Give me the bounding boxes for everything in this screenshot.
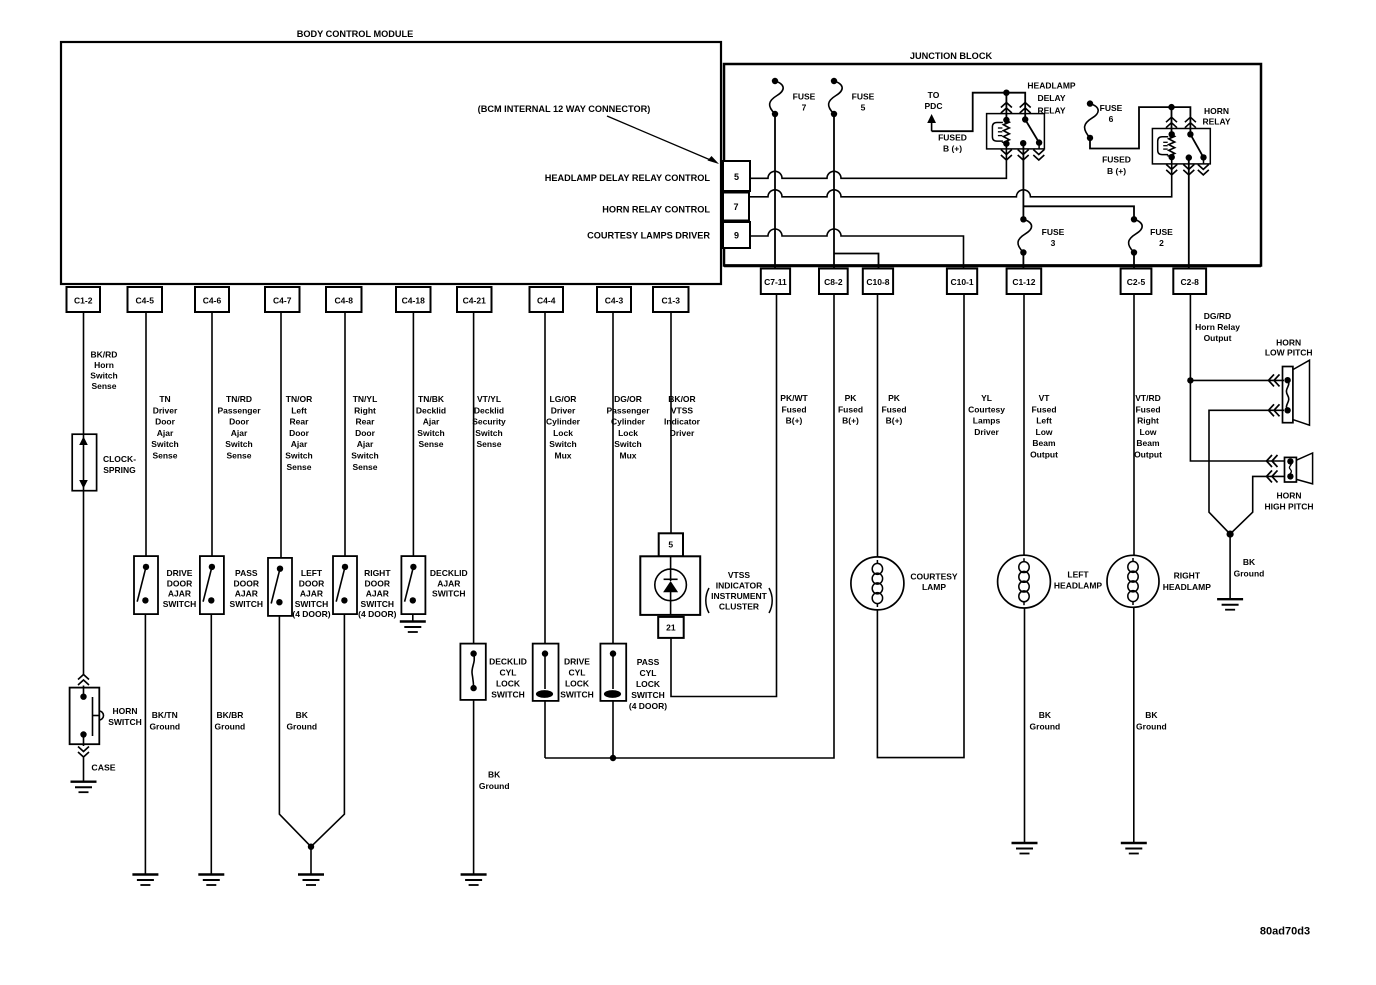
wire left headlamp to ground: [1024, 608, 1026, 843]
svg-text:6: 6: [1109, 114, 1114, 124]
svg-text:DECKLID: DECKLID: [489, 657, 527, 667]
connector chevron horn low pitch feed: [1269, 374, 1275, 386]
svg-text:HIGH PITCH: HIGH PITCH: [1264, 502, 1313, 512]
connector C4-7: [265, 287, 300, 312]
svg-text:HORN RELAY CONTROL: HORN RELAY CONTROL: [602, 204, 710, 214]
svg-text:Driver: Driver: [670, 428, 695, 438]
headlamp delay relay K1 coil: [992, 123, 1003, 142]
connector C4-4: [530, 287, 564, 312]
TO PDC arrow: [931, 119, 933, 131]
drive door ajar switch S2: [134, 556, 158, 614]
svg-text:COURTESY LAMPS DRIVER: COURTESY LAMPS DRIVER: [587, 231, 710, 241]
wire right headlamp to ground: [1133, 607, 1135, 843]
wire branch C8-2 to C10-8: [834, 254, 879, 269]
wire C4-4 to drive cyl lock switch: [544, 312, 546, 644]
svg-text:Decklid: Decklid: [474, 405, 504, 415]
svg-text:Driver: Driver: [551, 405, 576, 415]
svg-text:Left: Left: [1036, 416, 1052, 426]
wire fuse 2 to C2-5: [1133, 253, 1135, 269]
svg-text:LOW PITCH: LOW PITCH: [1265, 348, 1313, 358]
svg-text:Lock: Lock: [553, 428, 573, 438]
svg-text:TN/OR: TN/OR: [286, 394, 312, 404]
clockspring wire and arrows: [83, 434, 85, 491]
body control module U1 box: [61, 42, 721, 284]
svg-text:C4-5: C4-5: [136, 296, 155, 306]
wire decklid cyl lock switch to ground: [473, 700, 475, 875]
decklid ajar switch S6: [401, 556, 425, 614]
svg-text:B (+): B (+): [943, 144, 962, 154]
svg-text:7: 7: [802, 102, 807, 112]
svg-text:Sense: Sense: [476, 439, 501, 449]
svg-text:C4-21: C4-21: [463, 296, 486, 306]
wire C4-18 to decklid ajar switch: [412, 312, 414, 556]
junction block box: [724, 64, 1261, 266]
wire pass door ajar switch to ground: [210, 614, 212, 874]
headlamp delay relay K1 connector chevrons below: [1001, 150, 1012, 155]
svg-text:Ground: Ground: [1030, 721, 1061, 731]
connector C4-5: [128, 287, 163, 312]
wire horn relay to C2-8: [1188, 158, 1190, 269]
pass cyl lock switch S9: [600, 644, 626, 701]
VTSS pin 21 box: [658, 617, 684, 638]
wire drive door ajar switch to ground: [144, 614, 146, 874]
connector C4-21: [457, 287, 492, 312]
ground pass door switch: [198, 873, 224, 875]
svg-text:DG/OR: DG/OR: [614, 394, 642, 404]
svg-text:YL: YL: [981, 393, 992, 403]
svg-text:Beam: Beam: [1136, 438, 1160, 448]
wire to horn low pitch: [1190, 379, 1284, 381]
svg-text:HEADLAMP: HEADLAMP: [1054, 581, 1102, 591]
svg-text:Courtesy: Courtesy: [968, 404, 1005, 414]
wire drive cyl lock switch to mux bus: [544, 701, 546, 758]
horn relay K2 connector chevrons below: [1166, 164, 1177, 169]
svg-text:BK: BK: [1243, 557, 1256, 567]
svg-text:Rear: Rear: [356, 417, 376, 427]
svg-text:TN: TN: [159, 394, 170, 404]
connector C4-8: [326, 287, 362, 312]
svg-text:Rear: Rear: [290, 417, 310, 427]
svg-text:Switch: Switch: [475, 428, 502, 438]
svg-text:C2-5: C2-5: [1127, 277, 1146, 287]
connector C7-11: [761, 269, 790, 295]
connector C4-6: [195, 287, 229, 312]
svg-text:RIGHT: RIGHT: [364, 568, 391, 578]
headlamp delay relay K1 switch: [1022, 116, 1028, 122]
svg-text:LOCK: LOCK: [565, 679, 590, 689]
svg-text:TN/YL: TN/YL: [353, 394, 378, 404]
wire pass cyl lock switch to mux bus: [612, 701, 614, 758]
wire C4-7 to left door ajar switch: [280, 312, 282, 558]
wire C4-8 to right door ajar switch: [344, 312, 346, 556]
svg-text:Switch: Switch: [614, 439, 641, 449]
svg-text:C7-11: C7-11: [764, 277, 787, 287]
svg-text:7: 7: [733, 202, 738, 212]
svg-text:TN/BK: TN/BK: [418, 394, 445, 404]
svg-text:LOCK: LOCK: [496, 679, 521, 689]
svg-text:Switch: Switch: [417, 428, 444, 438]
ground horns: [1217, 598, 1243, 600]
svg-text:B (+): B (+): [1107, 166, 1126, 176]
connector C2-8: [1173, 269, 1206, 295]
svg-text:LAMP: LAMP: [922, 582, 946, 592]
svg-text:AJAR: AJAR: [300, 589, 323, 599]
svg-text:5: 5: [734, 172, 739, 182]
connector chevron horn high pitch feed: [1267, 455, 1273, 467]
svg-text:VTSS: VTSS: [671, 405, 694, 415]
svg-text:2: 2: [1159, 238, 1164, 248]
svg-text:C2-8: C2-8: [1180, 277, 1199, 287]
horn ground junction node: [1227, 531, 1234, 538]
courtesy lamp E1: [851, 557, 904, 610]
wire C2-5 to right headlamp: [1133, 294, 1135, 555]
svg-text:SWITCH: SWITCH: [432, 589, 466, 599]
connector C1-12: [1007, 269, 1042, 295]
ground drive door switch: [132, 873, 158, 875]
svg-text:DOOR: DOOR: [167, 578, 193, 588]
svg-text:Cylinder: Cylinder: [611, 417, 646, 427]
decklid cyl lock switch S7: [460, 644, 485, 700]
ground junction node rear doors: [308, 844, 314, 850]
svg-text:LEFT: LEFT: [301, 568, 323, 578]
svg-text:FUSE: FUSE: [1042, 227, 1065, 237]
svg-text:Door: Door: [155, 417, 176, 427]
svg-text:DOOR: DOOR: [299, 578, 325, 588]
wire clockspring to horn switch: [83, 491, 85, 675]
wire C2-8 to horn feed junction: [1189, 294, 1191, 380]
svg-text:DRIVE: DRIVE: [167, 568, 193, 578]
svg-text:C1-3: C1-3: [662, 296, 681, 306]
svg-text:SWITCH: SWITCH: [295, 599, 329, 609]
svg-text:B(+): B(+): [786, 416, 803, 426]
svg-text:Left: Left: [291, 405, 307, 415]
ground right headlamp: [1121, 842, 1147, 844]
wire C1-12 to left headlamp: [1023, 294, 1025, 555]
svg-text:AJAR: AJAR: [437, 578, 460, 588]
wire pin 5 to headlamp delay relay coil: [750, 144, 1006, 179]
wire VTSS pin 21 to C7-11: [671, 294, 777, 697]
svg-text:VT/YL: VT/YL: [477, 394, 501, 404]
svg-text:B(+): B(+): [886, 416, 903, 426]
svg-text:C4-8: C4-8: [335, 296, 354, 306]
svg-text:BK: BK: [1039, 710, 1052, 720]
svg-text:(4 DOOR): (4 DOOR): [358, 609, 396, 619]
connector C4-18: [396, 287, 431, 312]
wire fuse 5 to C8-2: [833, 114, 835, 269]
VTSS indicator LED D1: [670, 556, 672, 581]
svg-text:Fused: Fused: [881, 404, 906, 414]
right rear door ajar switch S5: [333, 556, 357, 614]
headlamp delay relay K1 connector chevrons above: [1001, 103, 1012, 108]
svg-text:(BCM INTERNAL 12 WAY CONNECTOR: (BCM INTERNAL 12 WAY CONNECTOR): [478, 104, 651, 114]
svg-text:CYL: CYL: [500, 668, 517, 678]
left headlamp E2: [998, 555, 1051, 608]
wire C4-3 to pass cyl lock switch: [612, 312, 614, 644]
svg-text:Switch: Switch: [225, 439, 252, 449]
wire fused B(+) feed to headlamp delay relay: [932, 93, 1026, 132]
svg-text:AJAR: AJAR: [168, 589, 191, 599]
svg-text:Mux: Mux: [620, 451, 637, 461]
svg-text:Indicator: Indicator: [664, 417, 701, 427]
wire horns to ground: [1229, 534, 1231, 599]
svg-text:Ajar: Ajar: [357, 439, 374, 449]
svg-text:80ad70d3: 80ad70d3: [1260, 926, 1310, 938]
wire pin 9 to C10-1: [750, 229, 964, 269]
svg-text:Ajar: Ajar: [423, 417, 440, 427]
wire C1-3 to VTSS pin 5: [670, 312, 672, 533]
svg-text:HORN: HORN: [1204, 106, 1229, 116]
svg-text:LOCK: LOCK: [636, 679, 661, 689]
wire left door ajar switch to ground junction: [279, 616, 311, 847]
connector C10-8: [863, 269, 893, 295]
svg-text:VT: VT: [1039, 393, 1051, 403]
svg-text:Switch: Switch: [549, 439, 576, 449]
svg-text:FUSE: FUSE: [1150, 227, 1173, 237]
right headlamp E3: [1107, 555, 1159, 607]
svg-text:HORN: HORN: [1276, 337, 1301, 347]
svg-text:B(+): B(+): [842, 416, 859, 426]
wire C10-8 to courtesy lamp: [877, 294, 879, 557]
svg-text:CLOCK-: CLOCK-: [103, 454, 136, 464]
svg-text:DECKLID: DECKLID: [430, 568, 468, 578]
svg-text:Driver: Driver: [974, 427, 999, 437]
fuse F5: [831, 78, 837, 84]
connector chevron below horn switch: [78, 747, 89, 752]
horn switch S1 contacts: [80, 694, 86, 700]
svg-text:BK/RD: BK/RD: [91, 350, 118, 360]
svg-text:Output: Output: [1204, 333, 1232, 343]
svg-text:Switch: Switch: [285, 451, 312, 461]
svg-text:Sense: Sense: [152, 451, 177, 461]
wire C4-21 to decklid cyl lock switch: [473, 312, 475, 644]
horn relay K2 coil: [1158, 137, 1169, 155]
svg-text:FUSE: FUSE: [1100, 103, 1123, 113]
wire horn switch to case ground: [83, 758, 85, 782]
svg-text:5: 5: [861, 102, 866, 112]
svg-text:SWITCH: SWITCH: [631, 690, 665, 700]
leader arrow from label to pin 5: [607, 116, 714, 162]
connector C10-1: [947, 269, 977, 295]
svg-text:Passenger: Passenger: [218, 405, 262, 415]
svg-text:DOOR: DOOR: [234, 578, 260, 588]
svg-text:PK: PK: [888, 393, 901, 403]
ground decklid ajar switch: [400, 620, 426, 622]
svg-text:C10-1: C10-1: [950, 277, 973, 287]
wire C4-5 to drive door ajar switch: [145, 312, 147, 556]
svg-text:Mux: Mux: [555, 451, 572, 461]
svg-text:Horn: Horn: [94, 360, 114, 370]
svg-text:VTSS: VTSS: [728, 570, 751, 580]
svg-text:Door: Door: [355, 428, 376, 438]
svg-text:Ground: Ground: [479, 781, 510, 791]
horn feed junction node: [1187, 377, 1193, 383]
wire C4-6 to pass door ajar switch: [211, 312, 213, 556]
svg-text:Fused: Fused: [1031, 404, 1056, 414]
svg-text:Output: Output: [1134, 450, 1162, 460]
svg-text:BK: BK: [296, 710, 309, 720]
VTSS pin 5 box: [659, 533, 683, 556]
BCM pin 9: [723, 222, 750, 248]
connector chevron horn high pitch return: [1267, 470, 1273, 482]
svg-text:Low: Low: [1140, 427, 1157, 437]
svg-text:C4-18: C4-18: [402, 296, 425, 306]
connector chevron above horn switch: [78, 675, 89, 680]
svg-text:Sense: Sense: [286, 462, 311, 472]
connector C4-3: [597, 287, 631, 312]
connector C2-5: [1121, 269, 1152, 295]
svg-text:LEFT: LEFT: [1067, 569, 1089, 579]
svg-text:AJAR: AJAR: [366, 589, 389, 599]
svg-text:FUSED: FUSED: [1102, 155, 1131, 165]
svg-text:HORN: HORN: [1276, 491, 1301, 501]
svg-text:PDC: PDC: [925, 101, 943, 111]
svg-text:Sense: Sense: [418, 439, 443, 449]
wire fuse 7 to C7-11: [774, 114, 776, 269]
svg-text:CYL: CYL: [640, 668, 657, 678]
svg-text:RELAY: RELAY: [1202, 117, 1230, 127]
svg-text:SWITCH: SWITCH: [491, 690, 525, 700]
svg-text:HEADLAMP: HEADLAMP: [1163, 582, 1211, 592]
svg-text:HEADLAMP DELAY RELAY CONTROL: HEADLAMP DELAY RELAY CONTROL: [545, 173, 711, 183]
connector C8-2: [819, 269, 848, 295]
svg-text:Low: Low: [1036, 427, 1053, 437]
VTSS indicator box: [640, 556, 700, 615]
svg-text:Door: Door: [229, 417, 250, 427]
svg-text:Horn Relay: Horn Relay: [1195, 322, 1240, 332]
ground decklid cyl lock switch: [461, 873, 487, 875]
svg-text:Ajar: Ajar: [231, 428, 248, 438]
svg-text:C4-4: C4-4: [537, 296, 556, 306]
svg-text:Right: Right: [1137, 416, 1159, 426]
svg-text:SWITCH: SWITCH: [560, 690, 594, 700]
svg-text:5: 5: [668, 540, 673, 550]
svg-text:C4-7: C4-7: [273, 296, 292, 306]
svg-text:COURTESY: COURTESY: [910, 571, 958, 581]
wire mux bus to C8-2: [545, 294, 834, 758]
wire to horn high pitch: [1190, 380, 1285, 461]
svg-text:Fused: Fused: [781, 404, 806, 414]
svg-text:FUSE: FUSE: [793, 91, 816, 101]
horn relay K2 connector chevrons above: [1166, 117, 1177, 122]
wire decklid ajar switch to ground: [412, 614, 414, 621]
svg-text:SPRING: SPRING: [103, 465, 136, 475]
svg-text:SWITCH: SWITCH: [230, 599, 264, 609]
svg-text:Output: Output: [1030, 450, 1058, 460]
svg-text:INDICATOR: INDICATOR: [716, 581, 762, 591]
svg-text:21: 21: [666, 623, 676, 633]
wire horn high pitch return: [1230, 476, 1285, 534]
svg-text:SWITCH: SWITCH: [361, 599, 395, 609]
VTSS label parentheses: [706, 588, 709, 613]
horn high pitch LS2: [1285, 457, 1297, 482]
svg-text:JUNCTION BLOCK: JUNCTION BLOCK: [910, 51, 993, 61]
ground left headlamp: [1012, 842, 1038, 844]
svg-text:Switch: Switch: [90, 371, 117, 381]
ground rear door switches: [298, 873, 324, 875]
clockspring box: [72, 434, 96, 491]
svg-text:FUSE: FUSE: [852, 91, 875, 101]
svg-text:Door: Door: [289, 428, 310, 438]
svg-text:Ground: Ground: [1234, 568, 1265, 578]
wire headlamp delay relay to fuses 3 and 2: [1022, 143, 1024, 219]
svg-text:CYL: CYL: [569, 668, 586, 678]
svg-text:RIGHT: RIGHT: [1174, 571, 1201, 581]
connector C1-3: [653, 287, 689, 312]
svg-text:LG/OR: LG/OR: [550, 394, 577, 404]
svg-text:Cylinder: Cylinder: [546, 417, 581, 427]
svg-text:Decklid: Decklid: [416, 405, 446, 415]
horn relay K2 box: [1152, 129, 1210, 164]
svg-text:BK: BK: [488, 770, 501, 780]
svg-text:TN/RD: TN/RD: [226, 394, 252, 404]
svg-text:C10-8: C10-8: [866, 277, 889, 287]
wire C1-2 to clockspring: [83, 312, 85, 434]
svg-text:C1-12: C1-12: [1012, 277, 1035, 287]
svg-text:Fused: Fused: [1135, 404, 1160, 414]
wire horn low pitch return: [1209, 410, 1284, 534]
svg-text:CASE: CASE: [91, 763, 115, 773]
svg-text:PASS: PASS: [235, 568, 258, 578]
svg-text:DRIVE: DRIVE: [564, 657, 590, 667]
horn relay K2 switch: [1187, 131, 1193, 137]
svg-text:BK/OR: BK/OR: [668, 394, 695, 404]
svg-text:FUSED: FUSED: [938, 132, 967, 142]
svg-text:TO: TO: [928, 90, 940, 100]
case ground: [71, 781, 97, 783]
svg-text:BODY CONTROL MODULE: BODY CONTROL MODULE: [297, 29, 414, 39]
svg-text:Ground: Ground: [215, 721, 246, 731]
svg-text:PK/WT: PK/WT: [780, 393, 808, 403]
svg-text:AJAR: AJAR: [235, 589, 258, 599]
wire fuse 3 to C1-12: [1022, 253, 1024, 269]
svg-text:BK/TN: BK/TN: [152, 710, 178, 720]
mux bus junction node: [610, 755, 616, 761]
svg-text:9: 9: [734, 231, 739, 241]
svg-text:DOOR: DOOR: [365, 578, 391, 588]
svg-text:Lamps: Lamps: [973, 416, 1001, 426]
svg-text:PK: PK: [845, 393, 858, 403]
svg-text:HEADLAMP: HEADLAMP: [1027, 80, 1075, 90]
VTSS indicator lamp circle: [655, 569, 687, 601]
svg-text:Lock: Lock: [618, 428, 638, 438]
headlamp delay relay K1 box: [987, 114, 1045, 149]
left rear door ajar switch S4: [268, 558, 292, 616]
svg-text:Switch: Switch: [151, 439, 178, 449]
wire courtesy lamp to C10-1: [877, 294, 964, 758]
svg-text:BK/BR: BK/BR: [216, 710, 243, 720]
fuse F7: [772, 78, 778, 84]
svg-text:Sense: Sense: [352, 462, 377, 472]
svg-text:C4-6: C4-6: [203, 296, 222, 306]
svg-text:CLUSTER: CLUSTER: [719, 602, 759, 612]
wire fuse 6 to horn relay: [1090, 107, 1190, 148]
svg-text:Switch: Switch: [351, 451, 378, 461]
svg-text:Fused: Fused: [838, 404, 863, 414]
wire pin 7 to horn relay coil: [749, 157, 1172, 197]
fuse F2: [1131, 216, 1137, 222]
svg-text:C4-3: C4-3: [605, 296, 624, 306]
BCM pin 5: [723, 161, 750, 191]
BCM pin 7: [723, 193, 749, 221]
connector chevron horn low pitch return: [1269, 404, 1275, 416]
svg-text:C8-2: C8-2: [824, 277, 843, 287]
svg-text:C1-2: C1-2: [74, 296, 93, 306]
svg-text:(4 DOOR): (4 DOOR): [292, 609, 330, 619]
connector C1-2: [67, 287, 101, 312]
wire right door ajar switch to ground junction: [311, 614, 344, 847]
pass door ajar switch S3: [200, 556, 224, 614]
svg-text:Security: Security: [472, 417, 506, 427]
